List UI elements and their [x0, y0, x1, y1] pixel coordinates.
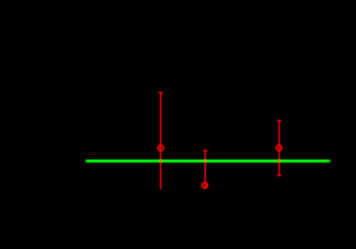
data point marker 2 [202, 183, 208, 189]
error bar 3 top cap [277, 120, 281, 122]
error bar 2 (x=205.2): stem [204, 151, 206, 189]
error bar 1 top cap [158, 92, 163, 94]
error bar 1 (x=160.6): stem [158, 93, 282, 190]
error bar 3 bottom cap [277, 174, 281, 176]
error bar 2 top cap [203, 150, 207, 152]
data point marker 3 [276, 145, 282, 151]
error bar 3 (x=279.1): stem [278, 121, 280, 176]
green constant-function line [86, 160, 331, 163]
data point marker 1 [158, 145, 164, 151]
